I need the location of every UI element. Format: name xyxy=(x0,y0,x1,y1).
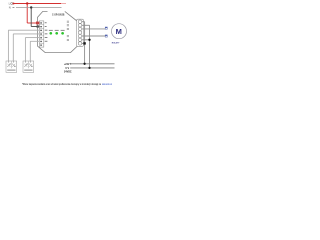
terminal row marks (right strip internal labels) xyxy=(67,21,69,41)
footnote xyxy=(22,83,112,86)
LED D2 xyxy=(55,32,58,35)
switch S1 (momentary up/down) xyxy=(6,61,17,72)
svg-text:C-OR-0202B: C-OR-0202B xyxy=(52,13,65,17)
junction dot on L xyxy=(26,2,28,4)
node L (label + terminal) xyxy=(9,2,13,6)
LED D1 xyxy=(49,32,52,35)
motor terminal M1 xyxy=(105,27,107,29)
wire L (phase, red) xyxy=(13,3,66,5)
background xyxy=(0,0,130,90)
module U1 outline (octagon body) xyxy=(38,11,79,52)
wire L drop to module xyxy=(27,4,39,24)
svg-text:24VDC: 24VDC xyxy=(64,70,72,74)
svg-text:ROLETY: ROLETY xyxy=(112,43,120,45)
terminal strip right (module output terminals) xyxy=(77,19,84,46)
net 0V xyxy=(65,66,114,70)
wire L entry over module xyxy=(36,22,40,25)
wire switch S1 up xyxy=(8,30,39,61)
switch S2 (momentary up/down) xyxy=(23,61,34,72)
LED labels xyxy=(49,29,65,32)
svg-text:N: N xyxy=(9,6,11,10)
pin labels left strip xyxy=(45,22,48,41)
wire N drop to module xyxy=(31,8,39,27)
wire switch S2 up xyxy=(25,38,39,61)
wire switch S1 down xyxy=(13,34,39,61)
net +24V xyxy=(64,62,115,66)
wire motor M1 xyxy=(82,28,105,30)
junction dot on N xyxy=(30,6,32,8)
motor terminal M2 xyxy=(105,35,107,37)
wire switch S2 down xyxy=(30,41,39,61)
motor M xyxy=(112,24,127,45)
ferrule N at terminal xyxy=(37,25,40,27)
svg-text:www.zamel.com: www.zamel.com xyxy=(102,83,112,86)
wire motor M2 xyxy=(82,35,105,37)
wire N entry over module xyxy=(36,25,40,27)
wire 0V feed (terminal 6 to bus) xyxy=(82,25,91,68)
wire N (neutral, gray) xyxy=(13,7,15,9)
wire +24V feed (terminal 2 to bus) xyxy=(82,22,85,64)
junction dot COM xyxy=(82,42,86,44)
terminal strip left (module input terminals) xyxy=(39,21,43,47)
svg-text:M: M xyxy=(116,27,122,36)
ferrule L at terminal xyxy=(36,22,39,25)
svg-text:*Obraz napiecia zasilania oraz: *Obraz napiecia zasilania oraz schemat p… xyxy=(22,83,101,86)
LED D3 xyxy=(61,32,64,35)
